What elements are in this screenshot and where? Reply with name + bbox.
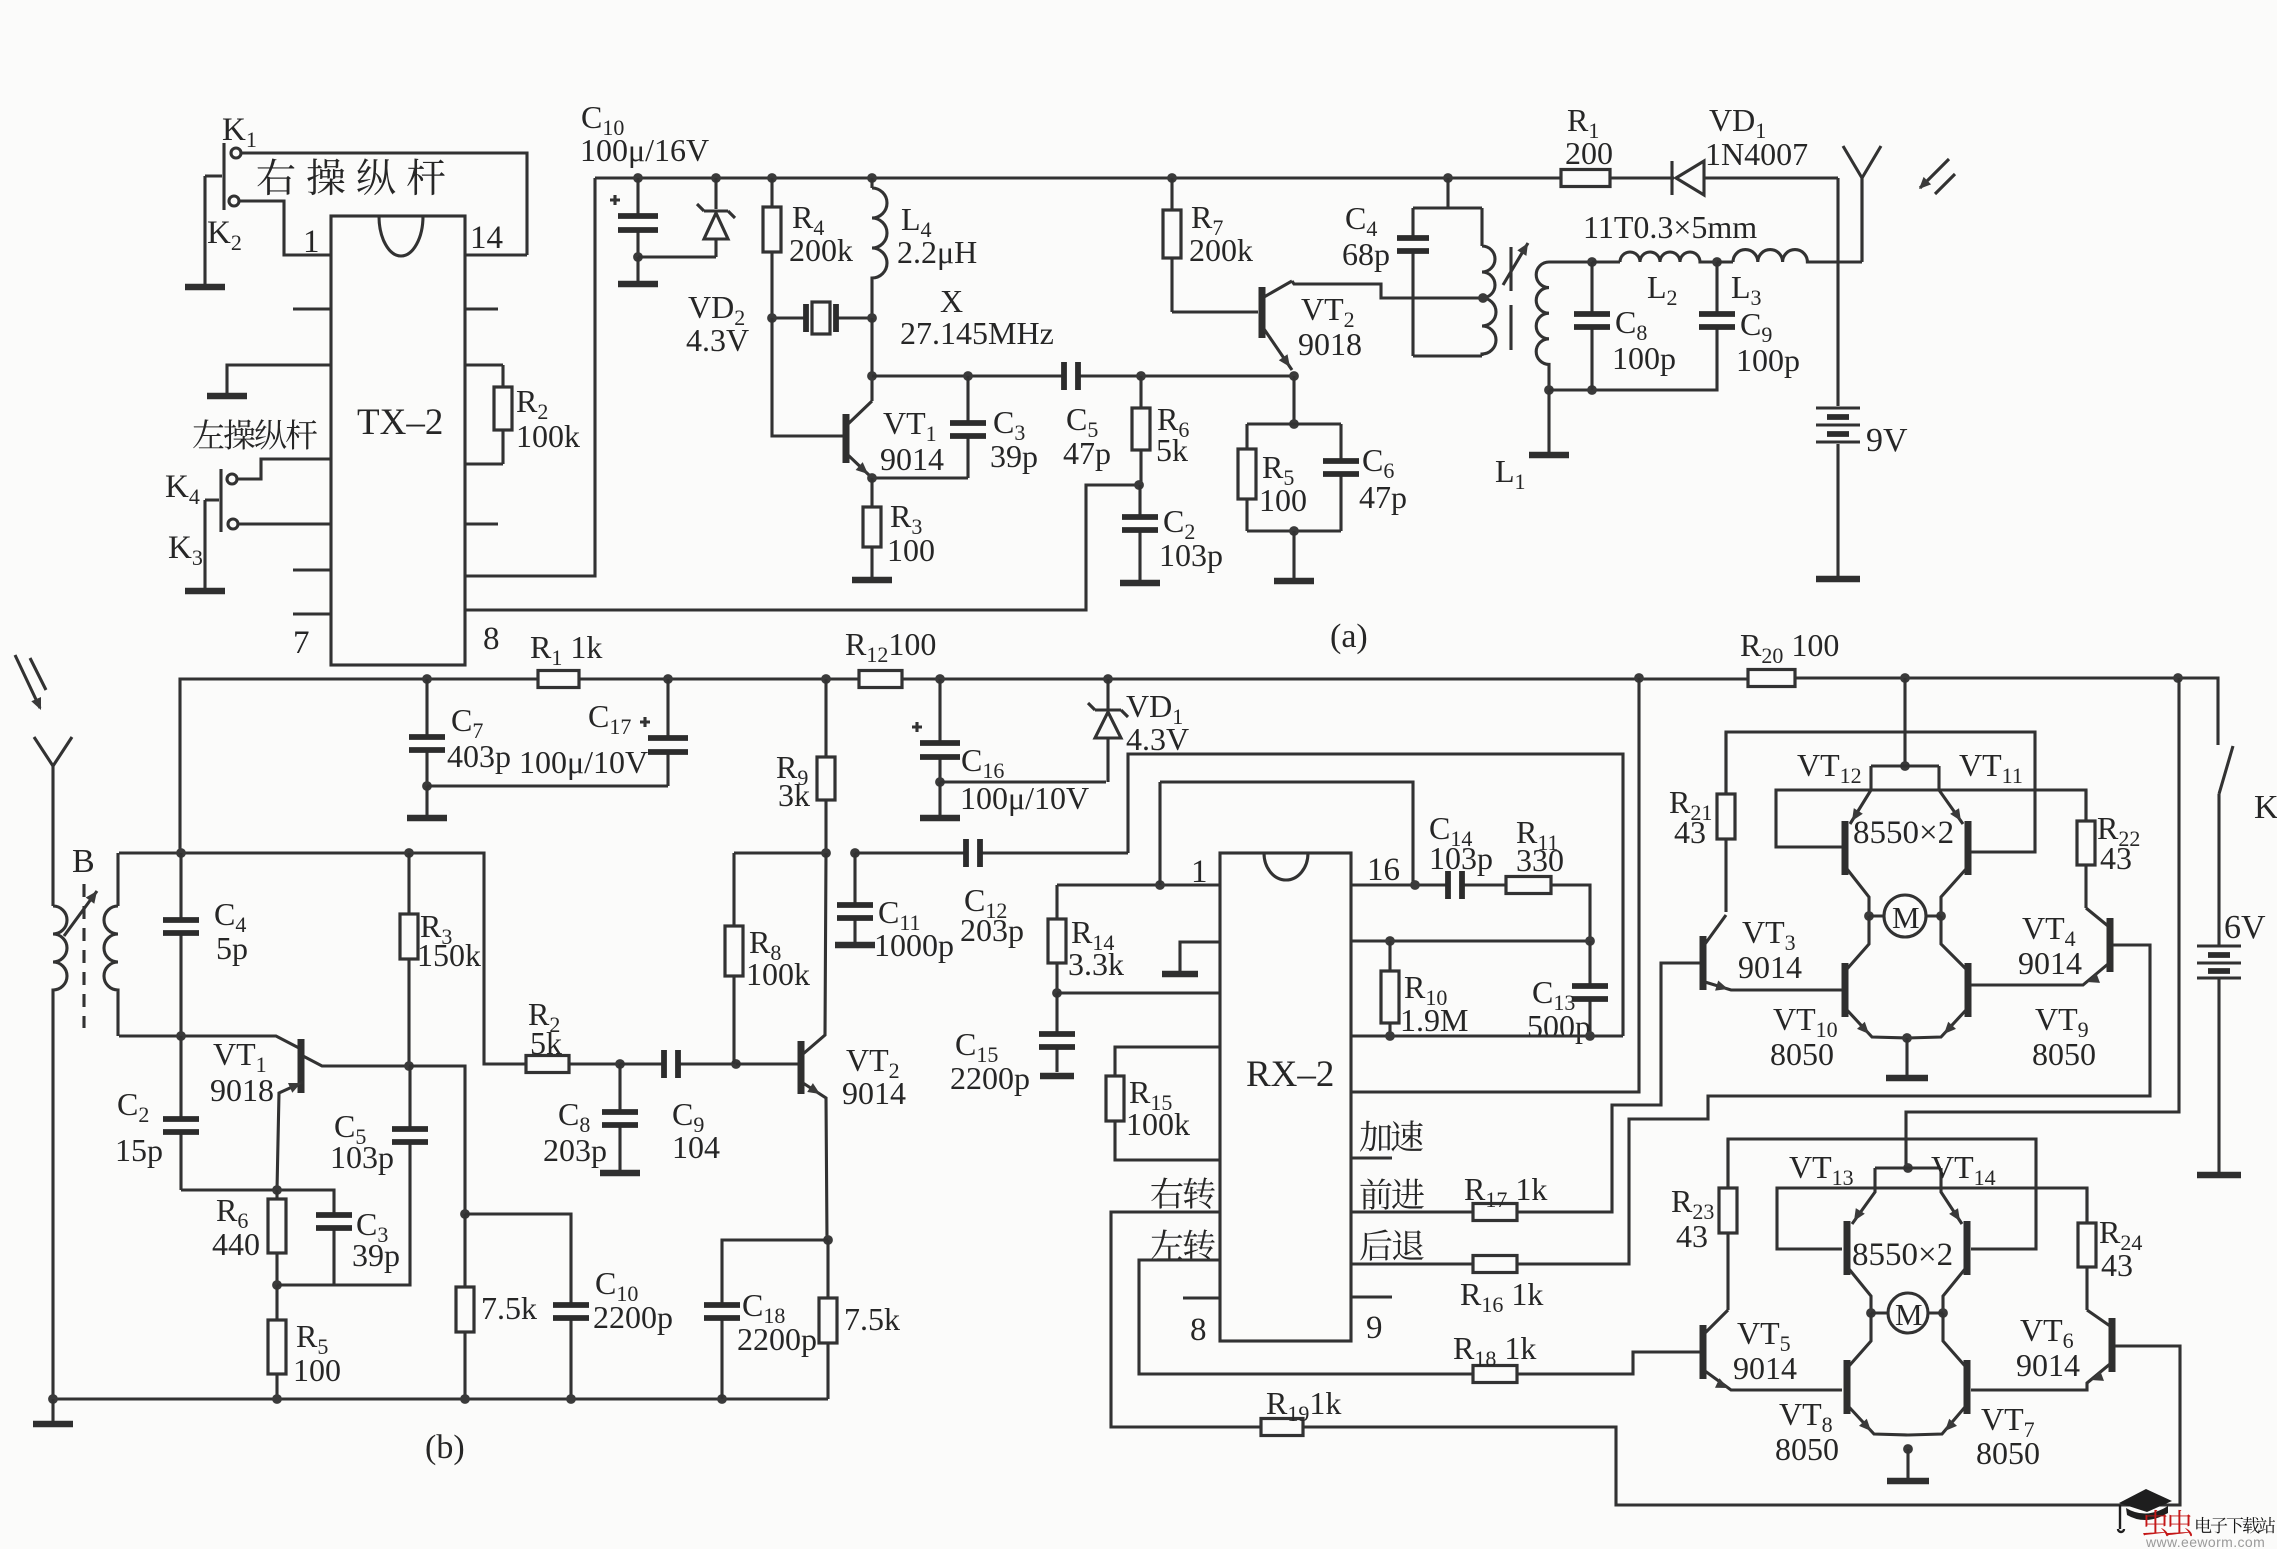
node C11 top — [850, 848, 860, 858]
wire R4 node to VT1 base — [772, 318, 843, 436]
resistor R1a — [1561, 170, 1610, 187]
wire bottom rail b — [53, 1397, 828, 1400]
wire R5C6 bottom rail — [1247, 529, 1341, 532]
wire rail b mid2 — [902, 677, 1748, 680]
node C13 top — [1585, 936, 1595, 946]
node rail C17 — [663, 674, 673, 684]
resistor R23 — [1719, 1139, 1737, 1310]
svg-text:200k: 200k — [789, 232, 853, 268]
svg-text:39p: 39p — [352, 1237, 400, 1273]
wire R16 to VT4 base — [1517, 945, 2150, 1264]
svg-text:200k: 200k — [1189, 232, 1253, 268]
node R6b bottom — [272, 1280, 282, 1290]
svg-text:R1 1k: R1 1k — [530, 629, 602, 670]
svg-text:203p: 203p — [543, 1132, 607, 1168]
node crystal right — [867, 313, 877, 323]
svg-text:9014: 9014 — [2016, 1347, 2080, 1383]
label 后退 — [1360, 1229, 1423, 1260]
node VT1b emitter — [272, 1185, 282, 1195]
battery 9V — [1816, 178, 1860, 572]
node C4 bottom — [176, 1031, 186, 1041]
svg-text:43: 43 — [2100, 840, 2132, 876]
wire T1 tap to VT2 collector — [1482, 296, 1484, 299]
node VT2 emitter — [1289, 371, 1299, 381]
wire T1 top bar — [1413, 206, 1482, 209]
capacitor C16 — [912, 679, 960, 782]
node R3 top — [404, 848, 414, 858]
wire B bottom to VT1b base — [119, 1036, 299, 1048]
node R5C6 top — [1289, 419, 1299, 429]
wire C5 out to emitter VT2 — [1096, 374, 1294, 377]
svg-text:9V: 9V — [1866, 422, 1908, 459]
transistor VT11 8550 — [1939, 766, 1968, 916]
pin stub rx9 — [1351, 1295, 1392, 1298]
svg-text:103p: 103p — [1429, 840, 1493, 876]
resistor R18 — [1473, 1366, 1517, 1383]
capacitor C13 — [1572, 941, 1608, 1036]
capacitor C10b — [553, 1303, 589, 1399]
capacitor C4a — [1397, 208, 1429, 356]
resistor R2 — [494, 365, 512, 464]
transistor VT6 9014 — [1971, 1310, 2180, 1390]
node R10 top — [1385, 936, 1395, 946]
capacitor C12 — [963, 839, 1128, 867]
svg-text:27.145MHz: 27.145MHz — [900, 315, 1054, 351]
wire base VT2b — [736, 1062, 798, 1065]
battery 6V — [2197, 944, 2241, 1170]
svg-text:TX–2: TX–2 — [357, 402, 443, 443]
wire R24 to VT13 base line — [1777, 1188, 2087, 1249]
svg-text:K: K — [2254, 789, 2277, 826]
svg-text:200: 200 — [1565, 135, 1613, 171]
node rail R5b — [272, 1394, 282, 1404]
svg-text:403p: 403p — [447, 738, 511, 774]
resistor R17 — [1473, 1204, 1517, 1221]
wire R18 to VT5 base — [1517, 1352, 1700, 1374]
pin stub rx8 — [1183, 1296, 1220, 1299]
pin stub left 7 — [293, 612, 331, 615]
svg-text:9014: 9014 — [842, 1075, 906, 1111]
wire rail a — [595, 176, 1561, 179]
node pin1 riser — [1155, 880, 1165, 890]
wire 前进 to R17 — [1351, 1210, 1473, 1213]
transistor VT8 8050 — [1847, 1313, 1908, 1435]
svg-text:8550×2: 8550×2 — [1852, 1237, 1953, 1273]
zener diode VD2 — [697, 178, 735, 257]
resistor R21 — [1717, 732, 1735, 912]
zener diode VD1b — [1088, 679, 1128, 782]
ground pin 3 — [207, 390, 247, 396]
svg-text:100: 100 — [1259, 482, 1307, 518]
svg-text:7.5k: 7.5k — [844, 1301, 900, 1337]
svg-text:8050: 8050 — [2032, 1036, 2096, 1072]
svg-text:68p: 68p — [1342, 236, 1390, 272]
node rail 7.5k — [460, 1394, 470, 1404]
capacitor C10 — [610, 178, 658, 255]
svg-text:M: M — [1892, 900, 1920, 935]
svg-text:43: 43 — [1674, 814, 1706, 850]
svg-text:(b): (b) — [425, 1429, 465, 1466]
svg-text:9: 9 — [1366, 1310, 1383, 1346]
ground C15 — [1040, 1073, 1074, 1080]
node motorB right — [1938, 1308, 1948, 1318]
antenna b — [15, 655, 72, 766]
svg-text:4.3V: 4.3V — [686, 322, 749, 358]
node L2 left — [1587, 257, 1597, 267]
svg-text:8050: 8050 — [1775, 1431, 1839, 1467]
crystal X — [772, 302, 872, 334]
ground C16 — [920, 782, 960, 818]
node rail bridgeA — [1900, 673, 1910, 683]
wire R14 node to pin3 — [1057, 991, 1220, 994]
inductor L1 — [1536, 262, 1549, 390]
svg-text:100μ/16V: 100μ/16V — [580, 132, 709, 168]
inductor L3 — [1717, 250, 1862, 262]
wire bridgeB emitter bracket — [1875, 1166, 1941, 1169]
capacitor C17 — [640, 679, 688, 786]
transformer B antenna winding — [53, 764, 67, 1399]
svg-text:39p: 39p — [990, 438, 1038, 474]
watermark eeworm logo — [2118, 1489, 2172, 1532]
svg-text:1: 1 — [303, 224, 320, 260]
resistor R3 — [863, 478, 881, 573]
resistor R6b — [268, 1190, 286, 1285]
wire rail b left — [180, 679, 538, 853]
wire rail b right — [1795, 678, 2218, 745]
ground bridgeA — [1886, 1038, 1928, 1078]
resistor R14 — [1048, 885, 1066, 993]
resistor R7 — [1163, 178, 1181, 312]
svg-text:100μ/10V: 100μ/10V — [519, 744, 648, 780]
svg-text:2.2μH: 2.2μH — [897, 234, 977, 270]
svg-text:104: 104 — [672, 1129, 720, 1165]
svg-text:100p: 100p — [1612, 340, 1676, 376]
label 加速 — [1360, 1120, 1423, 1151]
switch K — [2219, 746, 2233, 944]
wire R22 to VT12 base line — [1776, 790, 2086, 847]
wire rail b mid1 — [579, 677, 859, 680]
transistor VT7 8050 — [1908, 1313, 1967, 1435]
resistor R2b — [484, 1056, 620, 1073]
capacitor C15 — [1039, 993, 1075, 1072]
node bridgeA emitters — [1900, 761, 1910, 771]
node C10 bottom — [633, 252, 643, 262]
svg-text:15p: 15p — [115, 1132, 163, 1168]
node B top C4 — [176, 848, 186, 858]
transistor VT9 8050 — [1907, 916, 1968, 1038]
inductor L2 — [1592, 252, 1717, 262]
svg-text:B: B — [72, 843, 95, 880]
wire TX-2 power pin to rail — [465, 178, 595, 576]
wire R8 top corner — [734, 851, 826, 854]
transistor VT12 8550 — [1845, 766, 1871, 916]
wire emitter to R5C6 box — [1292, 376, 1295, 424]
wire pin1 line — [1057, 883, 1220, 886]
IC RX-2 — [1220, 853, 1351, 1341]
capacitor C9b — [620, 1050, 736, 1078]
wire K3 to pin — [238, 522, 331, 525]
motor M A — [1869, 895, 1941, 937]
wire collector line to C5 — [872, 374, 1064, 377]
svg-text:7: 7 — [293, 625, 310, 661]
ground bridgeB — [1887, 1449, 1929, 1481]
wire R11 to C13 node — [1551, 885, 1590, 941]
transformer T1 primary upper — [1482, 208, 1495, 298]
ground R3 — [852, 573, 892, 580]
wire C12 up and right — [1128, 754, 1623, 1036]
motor M B — [1871, 1293, 1943, 1333]
capacitor C2 — [1122, 485, 1158, 576]
svg-text:8: 8 — [1190, 1312, 1207, 1348]
svg-text:9014: 9014 — [1733, 1350, 1797, 1386]
transistor VT3 9014 — [1661, 915, 1842, 991]
svg-text:43: 43 — [2101, 1247, 2133, 1283]
node VT1 collector — [867, 371, 877, 381]
node pin16 riser — [1410, 880, 1420, 890]
wire 右转 to R19 — [1111, 1212, 1261, 1427]
svg-text:8050: 8050 — [1976, 1435, 2040, 1471]
wire to C18 — [722, 1240, 828, 1305]
transistor VT2b 9014 — [801, 853, 827, 1240]
wire K4 to pin — [237, 459, 331, 479]
transistor VT13 8550 — [1847, 1168, 1875, 1313]
capacitor C3b — [316, 1213, 352, 1285]
svg-text:4.3V: 4.3V — [1126, 721, 1189, 757]
wire pin 8 to C2 node — [465, 485, 1140, 610]
capacitor C9a — [1699, 262, 1735, 330]
wire 左转 to R18 — [1139, 1260, 1473, 1374]
svg-text:9014: 9014 — [2018, 945, 2082, 981]
svg-text:150k: 150k — [417, 937, 481, 973]
wire pin14 to K1 riser — [465, 253, 527, 256]
node motorB left — [1866, 1308, 1876, 1318]
ground C11 — [835, 938, 875, 945]
wire C7 to C17 bottom — [427, 784, 668, 787]
capacitor C4b — [163, 853, 199, 1036]
svg-text:100μ/10V: 100μ/10V — [960, 780, 1089, 816]
svg-text:X: X — [940, 283, 963, 319]
resistor R5 — [1238, 424, 1256, 531]
wire grounded pin 3 — [227, 365, 331, 390]
wire VT5coll to VT14 base box — [1728, 1139, 2036, 1249]
ground C8b — [600, 1166, 640, 1173]
resistor 7.5k left — [456, 1214, 474, 1399]
diode VD1 1N4007 — [1672, 161, 1838, 195]
node rail C10 — [633, 173, 643, 183]
svg-text:M: M — [1895, 1297, 1923, 1332]
ground battery 9V — [1816, 572, 1860, 579]
wire C2b to emitter — [181, 1190, 334, 1213]
node C3 top — [963, 371, 973, 381]
node bridgeA emitter gnd — [1902, 1033, 1912, 1043]
node emitter 7.5k right — [823, 1235, 833, 1245]
svg-text:1000p: 1000p — [874, 927, 954, 963]
capacitor C5 — [1063, 362, 1096, 390]
ground pin rx — [1162, 942, 1220, 974]
svg-text:6V: 6V — [2224, 909, 2266, 946]
node L2 right — [1712, 257, 1722, 267]
resistor R8 — [725, 853, 743, 1064]
resistor 7.5k right — [819, 1240, 837, 1399]
node VT1b collector — [404, 1061, 414, 1071]
ground right joystick — [185, 280, 225, 287]
svg-text:3.3k: 3.3k — [1068, 946, 1124, 982]
node rail R4 — [767, 173, 777, 183]
wire R17 to VT3 base — [1517, 963, 1700, 1212]
resistor R11 — [1506, 877, 1551, 894]
svg-text:5k: 5k — [530, 1025, 562, 1061]
wire emitter to C3 bottom — [872, 476, 968, 479]
IC TX-2 — [331, 216, 465, 665]
svg-text:103p: 103p — [1159, 537, 1223, 573]
wire L1 top to L2 — [1549, 260, 1592, 263]
svg-text:8050: 8050 — [1770, 1036, 1834, 1072]
wire pin1 riser — [1158, 782, 1161, 885]
wire L4 to collector node — [870, 318, 873, 376]
capacitor C6 — [1323, 424, 1359, 531]
svg-text:14: 14 — [470, 220, 503, 256]
ground C2 — [1120, 576, 1160, 583]
wire B top to R3 to C12 riser — [119, 853, 526, 1064]
pin stub left 2 — [293, 307, 331, 310]
core T1 with arrow — [1503, 243, 1528, 350]
resistor R24 — [2078, 1188, 2096, 1310]
wire rail R1-VD1 — [1610, 176, 1674, 179]
wire R19 to VT6 base — [1303, 1346, 2180, 1505]
node T1 tap — [1478, 293, 1488, 303]
transistor VT1b 9018 — [277, 1039, 409, 1190]
label left joystick 左操纵杆 — [193, 419, 317, 449]
svg-text:2200p: 2200p — [593, 1299, 673, 1335]
wire bridgeB feed — [1906, 678, 2179, 1168]
svg-text:9018: 9018 — [1298, 326, 1362, 362]
watermark 电子下载站 — [2196, 1517, 2275, 1534]
node R9 bottom — [821, 848, 831, 858]
wire 后退 to R16 — [1351, 1262, 1473, 1265]
svg-text:5k: 5k — [1156, 432, 1188, 468]
switch K2 — [229, 196, 239, 206]
svg-text:100k: 100k — [516, 418, 580, 454]
ground C7 — [407, 786, 447, 818]
wire pin1 riser to pin16 riser — [1160, 782, 1413, 885]
node rail VD2 — [711, 173, 721, 183]
node C7 bottom — [422, 781, 432, 791]
transistor VT5 9014 — [1633, 1310, 1842, 1390]
transistor VT14 8550 — [1941, 1168, 1967, 1313]
capacitor C7 — [409, 679, 445, 786]
transistor VT1 9014 — [846, 378, 872, 476]
label right joystick 右操纵杆 — [257, 158, 444, 195]
svg-text:9014: 9014 — [880, 441, 944, 477]
wire C11 node to C12 — [855, 851, 963, 854]
watermark 虫虫 — [2143, 1510, 2192, 1536]
node crystal left — [767, 313, 777, 323]
node R6 bottom / C2 top — [1134, 480, 1144, 490]
wire to C10b — [465, 1214, 571, 1305]
svg-text:330: 330 — [1516, 842, 1564, 878]
core B dashed with arrow — [64, 884, 97, 1028]
capacitor C18 — [704, 1303, 740, 1399]
wire rail to RX2 vcc — [1351, 678, 1639, 1092]
resistor R10 — [1381, 941, 1399, 1036]
wire L1C8 bottom — [1549, 330, 1717, 390]
pin stub left 6 — [293, 568, 331, 571]
node rail C16 — [935, 674, 945, 684]
node rail C18 — [717, 1394, 727, 1404]
svg-text:100p: 100p — [1736, 342, 1800, 378]
node R14 bottom — [1052, 988, 1062, 998]
svg-text:47p: 47p — [1063, 435, 1111, 471]
label 前进 — [1360, 1179, 1424, 1210]
svg-text:R12100: R12100 — [845, 626, 936, 667]
pin stub 加速 — [1351, 1156, 1392, 1159]
resistor R5b — [268, 1285, 286, 1399]
capacitor C3 — [950, 376, 986, 478]
svg-text:100k: 100k — [746, 956, 810, 992]
resistor R9 — [817, 679, 835, 853]
node rail R7 — [1167, 173, 1177, 183]
node rail C10b — [566, 1394, 576, 1404]
wire R10 bottom line — [1351, 1034, 1623, 1037]
node bridgeB emitters — [1903, 1163, 1913, 1173]
capacitor C5b — [392, 1066, 428, 1145]
capacitor C2b — [163, 1036, 199, 1190]
resistor R19 — [1261, 1419, 1303, 1436]
node motorA right — [1936, 911, 1946, 921]
svg-text:500p: 500p — [1527, 1008, 1591, 1044]
node rail T1 — [1443, 173, 1453, 183]
node R6 top — [1136, 371, 1146, 381]
resistor R6 — [1132, 376, 1150, 485]
transistor VT2 9018 — [1262, 281, 1484, 370]
svg-text:1.9M: 1.9M — [1400, 1002, 1468, 1038]
svg-text:2200p: 2200p — [950, 1060, 1030, 1096]
svg-text:8550×2: 8550×2 — [1853, 815, 1954, 851]
wire R10 top line — [1351, 939, 1590, 942]
wire R5C6 top rail — [1247, 422, 1341, 425]
node VT1 emitter — [867, 473, 877, 483]
node rail RX2 vcc — [1634, 673, 1644, 683]
label 右转 — [1151, 1177, 1215, 1208]
wire K2 to pin1 — [239, 201, 331, 255]
pin stub right 524 — [465, 522, 498, 525]
svg-text:(a): (a) — [1330, 618, 1368, 655]
wire pin16 line — [1351, 883, 1445, 886]
resistor R1b — [538, 671, 579, 688]
svg-text:100: 100 — [887, 532, 935, 568]
wire K1 to pin14 top — [241, 153, 527, 255]
label 左转 — [1151, 1229, 1215, 1260]
antenna a — [1843, 146, 1955, 261]
switch K4 — [205, 469, 237, 584]
switch K1 — [205, 143, 241, 280]
inductor L4 — [872, 178, 887, 318]
svg-text:www.eeworm.com: www.eeworm.com — [2145, 1534, 2265, 1549]
resistor R12 — [859, 671, 902, 688]
wire VT3coll to VT11 base box — [1726, 732, 2035, 852]
svg-text:11T0.3×5mm: 11T0.3×5mm — [1583, 209, 1757, 245]
svg-text:100k: 100k — [1126, 1106, 1190, 1142]
wire bridgeA emitter bracket — [1871, 764, 1939, 767]
wire collector to 7.5k riser — [409, 1066, 465, 1214]
node C8 bottom — [1587, 385, 1597, 395]
svg-text:RX–2: RX–2 — [1246, 1054, 1334, 1095]
node C16 bottom — [935, 777, 945, 787]
resistor R3b — [400, 853, 418, 1066]
svg-text:9018: 9018 — [210, 1072, 274, 1108]
ground bottom rail — [33, 1399, 73, 1424]
wire C10-VD2 bottom — [638, 255, 716, 258]
